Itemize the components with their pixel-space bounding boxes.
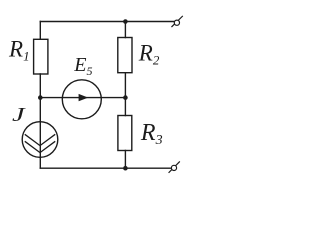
svg-text:R1: R1 xyxy=(8,37,30,64)
resistor R1 xyxy=(34,39,48,74)
wire top horizontal xyxy=(40,21,174,23)
junction node top xyxy=(123,19,128,24)
svg-text:E5: E5 xyxy=(73,54,92,78)
current source J xyxy=(22,122,58,158)
svg-text:R3: R3 xyxy=(140,120,163,148)
wire middle horizontal xyxy=(40,97,125,99)
arrowhead of source E5 xyxy=(79,94,89,101)
terminal top-right slash xyxy=(172,16,183,26)
junction node right middle xyxy=(123,95,128,100)
terminal bottom-right circle xyxy=(171,165,176,170)
junction node left middle xyxy=(38,95,43,100)
resistor R2 xyxy=(118,38,132,73)
voltage source E5 xyxy=(62,80,101,119)
svg-text:R2: R2 xyxy=(138,41,160,68)
wire bottom horizontal xyxy=(40,167,171,169)
wire left vertical xyxy=(39,22,41,169)
wire right vertical xyxy=(124,22,126,169)
svg-text:J: J xyxy=(12,104,26,126)
current source J arrows xyxy=(25,135,54,153)
resistor R3 xyxy=(118,116,132,151)
terminal top-right circle xyxy=(174,20,179,25)
junction node bottom xyxy=(123,166,128,171)
terminal bottom-right slash xyxy=(169,162,179,173)
